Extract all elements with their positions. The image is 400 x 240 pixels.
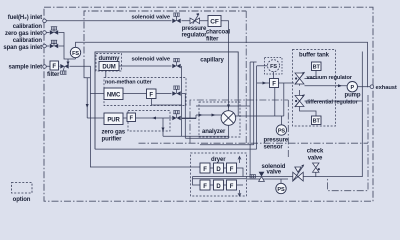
- svg-text:F: F: [230, 167, 234, 173]
- wire DUM to valve1: [119, 65, 182, 67]
- wire into analyzer with arrows: [182, 115, 222, 119]
- dryer dashed box: [191, 153, 247, 196]
- wire NMC line: [123, 93, 185, 95]
- port fuel inlet: [43, 19, 47, 23]
- riser from valve1: [181, 66, 183, 136]
- arrow left on PUR line: [152, 117, 156, 120]
- svg-text:option: option: [13, 197, 31, 203]
- dash-dot right inner vertical: [328, 95, 369, 191]
- solenoid valve 1: [172, 64, 180, 69]
- svg-text:solenoid valve: solenoid valve: [131, 15, 170, 21]
- wire into F with arrow: [257, 82, 270, 84]
- option dashed box: [12, 183, 33, 194]
- FS dashed circle: [268, 60, 280, 72]
- svg-text:valve: valve: [308, 156, 323, 162]
- wire BT1 to vacuum regulator: [305, 71, 317, 79]
- svg-text:zero gas: zero gas: [102, 130, 126, 136]
- svg-text:PS: PS: [277, 187, 285, 193]
- inner dash-dot partition top: [84, 11, 246, 66]
- svg-text:capillary: capillary: [200, 58, 224, 64]
- wires under analyzer: [163, 136, 229, 138]
- svg-text:CF: CF: [210, 19, 219, 26]
- solenoid valve (zero gas): [50, 30, 58, 35]
- svg-text:BT: BT: [313, 119, 321, 125]
- outer analyzer enclosure (dash-dot frame): [44, 7, 373, 201]
- wire diff reg connections: [300, 90, 317, 116]
- svg-text:exhaust: exhaust: [376, 85, 397, 91]
- svg-text:F: F: [203, 184, 207, 190]
- solenoid valve (fuel): [172, 19, 180, 24]
- solenoid valve 4 (vertical): [259, 172, 265, 177]
- inner dash-dot partition vertical x=246: [245, 11, 247, 143]
- FS flow sensor: [70, 47, 80, 57]
- wire analyzer out right: [235, 115, 284, 117]
- sample filter F box: [50, 61, 59, 70]
- svg-text:charcoal: charcoal: [206, 30, 230, 36]
- analyzer dashed box: [199, 102, 240, 137]
- svg-text:P: P: [351, 85, 355, 91]
- wire F down to PS line: [274, 88, 276, 117]
- svg-text:buffer tank: buffer tank: [299, 53, 330, 59]
- dashed option box around F2: [128, 111, 170, 132]
- dryer internal wires: [210, 168, 227, 185]
- wire diff reg right to purge vent: [305, 100, 363, 102]
- dryer purge arrows: [238, 157, 241, 164]
- wire bundle verticals: [249, 62, 251, 177]
- svg-text:regulator: regulator: [181, 33, 207, 39]
- F box bypass: [270, 79, 279, 88]
- wire DUM bottom stem: [105, 71, 107, 78]
- svg-text:F: F: [203, 167, 207, 173]
- wire capillary down: [237, 99, 239, 117]
- dash-dot section line y=143: [139, 142, 369, 144]
- wire vacuum reg to pump: [300, 84, 348, 86]
- PS pressure sensor 1: [280, 116, 282, 125]
- dryer row1 F box: [200, 163, 210, 173]
- svg-text:analyzer: analyzer: [202, 129, 226, 135]
- wire FS bypass to exhaust: [76, 42, 368, 87]
- svg-text:calibration: calibration: [13, 24, 43, 30]
- buffer tank dashed box: [293, 50, 336, 127]
- purge regulator (3-way): [293, 167, 303, 181]
- svg-text:BT: BT: [313, 65, 321, 71]
- solid section box C top: [95, 52, 238, 149]
- svg-text:NMC: NMC: [107, 93, 121, 99]
- solenoid valve 3: [172, 116, 180, 121]
- svg-text:DUM: DUM: [102, 65, 115, 71]
- charcoal filter CF box: [208, 16, 221, 27]
- dryer row2 F box 2: [227, 180, 237, 190]
- svg-text:pressure: pressure: [264, 138, 289, 144]
- wire FS to F: [273, 72, 275, 79]
- port sample: [43, 65, 47, 69]
- svg-text:sensor: sensor: [264, 145, 284, 151]
- wire sample riser to NMC/PUR: [84, 66, 90, 77]
- solenoid valve 2: [172, 91, 180, 96]
- wire F out to vacuum regulator: [279, 82, 295, 84]
- svg-text:solenoid valve: solenoid valve: [131, 57, 170, 63]
- differential regulator symbol: [295, 95, 305, 108]
- arrow down on riser: [86, 104, 89, 108]
- dryer row2 F box: [200, 180, 210, 190]
- svg-text:F: F: [52, 64, 56, 70]
- svg-text:pressure: pressure: [182, 26, 207, 32]
- wire PUR line: [123, 117, 196, 119]
- check valve: [313, 163, 320, 168]
- svg-text:sample inlet: sample inlet: [9, 65, 43, 71]
- svg-text:pump: pump: [345, 93, 361, 99]
- port span gas: [43, 44, 47, 48]
- svg-text:vacuum regulator: vacuum regulator: [307, 75, 353, 81]
- svg-text:F: F: [129, 116, 133, 122]
- dryer row1 F box 2: [227, 163, 237, 173]
- dash-dot vertical x=288: [287, 100, 289, 158]
- dryer row2 D box: [214, 180, 224, 190]
- F box after PUR: [127, 113, 136, 122]
- pressure regulator: [190, 13, 200, 24]
- F box after NMC: [147, 89, 157, 99]
- dryer row1 D box: [214, 163, 224, 173]
- svg-text:span gas inlet: span gas inlet: [3, 45, 42, 51]
- port exhaust: [370, 85, 374, 89]
- riser from valve2: [184, 94, 186, 139]
- BT box 1: [312, 62, 322, 71]
- BT box 2: [312, 116, 322, 125]
- dash-dot analyzer section box: [190, 100, 288, 143]
- svg-text:filter: filter: [206, 37, 219, 43]
- wire dryer out to solenoid valve 4: [247, 176, 293, 178]
- wire fuel line: [46, 21, 229, 111]
- svg-text:differential regulator: differential regulator: [306, 100, 359, 106]
- dummy dashed box: [96, 54, 122, 72]
- analyzer circle: [221, 111, 236, 126]
- svg-text:filter: filter: [47, 72, 60, 78]
- port zero gas: [43, 31, 47, 35]
- solenoid valve (sample): [60, 64, 68, 69]
- vacuum regulator symbol: [295, 72, 305, 85]
- svg-text:dryer: dryer: [211, 157, 226, 163]
- pump: [347, 82, 357, 92]
- FS bypass dashed box: [265, 58, 283, 75]
- svg-text:calibration: calibration: [13, 38, 43, 44]
- PUR box: [104, 113, 123, 125]
- wire calibration valves: [46, 33, 76, 60]
- svg-text:PS: PS: [278, 129, 286, 135]
- svg-text:valve: valve: [267, 169, 282, 175]
- wire pump to exhaust: [358, 86, 371, 88]
- svg-text:FS: FS: [270, 64, 277, 70]
- NMC box: [104, 88, 123, 100]
- svg-text:check: check: [307, 149, 324, 155]
- arrow on fuel line: [227, 105, 230, 109]
- svg-text:purifier: purifier: [102, 137, 123, 143]
- svg-text:non-methan cutter: non-methan cutter: [105, 80, 153, 86]
- svg-text:fuel(H₂) inlet: fuel(H₂) inlet: [8, 15, 42, 21]
- svg-text:F: F: [272, 82, 276, 88]
- svg-text:zero gas inlet: zero gas inlet: [5, 31, 42, 37]
- non-methane cutter dashed box: [104, 78, 186, 106]
- DUM box: [99, 62, 119, 71]
- svg-text:F: F: [149, 93, 153, 99]
- svg-text:FS: FS: [72, 51, 79, 57]
- solenoid valve (span gas): [50, 44, 58, 49]
- svg-text:PUR: PUR: [107, 118, 120, 124]
- branch down with arrow: [162, 118, 164, 136]
- svg-text:F: F: [230, 184, 234, 190]
- wire analyzer bottom stem: [227, 125, 229, 138]
- wire vent vertical: [304, 52, 363, 177]
- PS pressure sensor 2: [280, 179, 282, 183]
- wire dryer lower to PS2: [247, 178, 289, 180]
- wire sample: [46, 66, 200, 167]
